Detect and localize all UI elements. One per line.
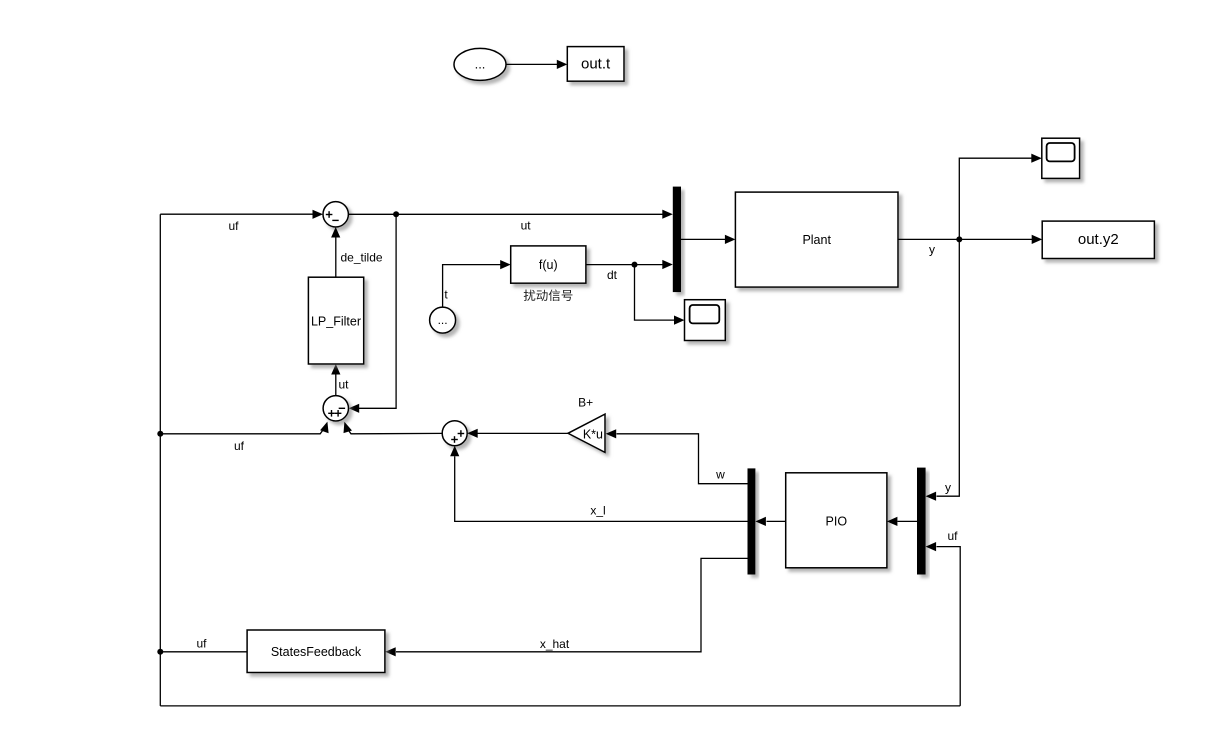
wire mux2 to PIO [898, 520, 918, 522]
svg-text:uf: uf [196, 637, 207, 651]
wire mux1 to Plant [681, 238, 726, 240]
wire sum3 out to sum2 (diagonal) [347, 429, 442, 434]
StatesFeedback block [247, 630, 385, 673]
wire x_hat demux to StatesFeedback [396, 558, 748, 651]
scope1 block [1042, 138, 1080, 178]
svg-text:LP_Filter: LP_Filter [311, 314, 361, 328]
svg-text:y: y [945, 481, 951, 495]
wire uf up into mux2 [937, 547, 961, 706]
wire w from demux to gain [617, 434, 748, 484]
svg-text:B+: B+ [578, 395, 593, 409]
wire gain out to sum3 [478, 432, 569, 434]
clock source (...) top [454, 48, 506, 80]
svg-text:uf: uf [234, 439, 245, 453]
gain B+ triangle K*u [568, 414, 605, 452]
node junction dt [632, 262, 638, 268]
PIO block [786, 473, 887, 568]
wire StatesFeedback out to left bus [160, 651, 247, 653]
svg-text:out.y2: out.y2 [1078, 231, 1119, 248]
svg-text:x_hat: x_hat [540, 637, 570, 651]
svg-text:ut: ut [521, 219, 532, 233]
node junction uf bottom [157, 649, 163, 655]
svg-text:dt: dt [607, 268, 618, 282]
wire bottom bus [160, 705, 960, 707]
wire sum1 to mux M1 (ut) [348, 213, 663, 215]
out.y2 block [1042, 221, 1154, 258]
Fcn block f(u) [511, 246, 586, 283]
wire clock t to f(u) [443, 265, 501, 308]
svg-text:ut: ut [339, 378, 350, 392]
svg-text:K*u: K*u [583, 427, 603, 441]
svg-text:uf: uf [947, 529, 958, 543]
wire junction down to sum2 right input [359, 214, 396, 408]
svg-text:uf: uf [228, 219, 239, 233]
mux bar M1 [673, 187, 681, 293]
sum block S3 [442, 421, 467, 446]
wire dt down to scope2 [635, 265, 675, 321]
svg-text:de_tilde: de_tilde [341, 251, 383, 265]
svg-text:...: ... [475, 57, 486, 72]
wire Plant out to out.y2 [898, 238, 1033, 240]
scope2 block [685, 300, 726, 341]
wire x_l from demux to sum3 [455, 456, 748, 521]
svg-text:out.t: out.t [581, 56, 611, 73]
Plant block [735, 192, 898, 287]
svg-text:x_l: x_l [590, 504, 605, 518]
node junction y [956, 236, 962, 242]
svg-text:w: w [715, 468, 725, 482]
wire left vertical uf bus [159, 214, 161, 706]
wire PIO to demux [767, 520, 786, 522]
clock source t [430, 307, 456, 333]
wire uf to sum1 [160, 213, 313, 215]
To Workspace out.t [567, 47, 624, 82]
sum block S2 [323, 396, 348, 421]
node junction ut branch [393, 211, 399, 217]
svg-text:PIO: PIO [826, 515, 848, 529]
label 扰动信号 (disturbance signal, drawn as paths) [524, 290, 573, 302]
sum block S1 [323, 202, 348, 227]
LP_Filter block [308, 277, 363, 364]
wire y up to scope1 [959, 158, 1032, 239]
demux bar [748, 468, 756, 574]
node junction uf mid [157, 431, 163, 437]
wire sum2 up to LP_Filter [335, 374, 337, 396]
svg-text:Plant: Plant [802, 233, 831, 247]
wire f(u) to mux1 (dt) [586, 264, 664, 266]
svg-text:y: y [929, 243, 935, 257]
svg-text:f(u): f(u) [539, 258, 558, 272]
wire LP_Filter up to sum1 [335, 237, 337, 278]
wire y down into mux2 [937, 239, 960, 496]
svg-text:...: ... [438, 313, 448, 327]
wire clock to out.t [506, 63, 558, 65]
mux bar M2 [917, 468, 926, 575]
wire uf mid to sum2 (diagonal) [160, 428, 324, 434]
svg-text:StatesFeedback: StatesFeedback [271, 645, 362, 659]
